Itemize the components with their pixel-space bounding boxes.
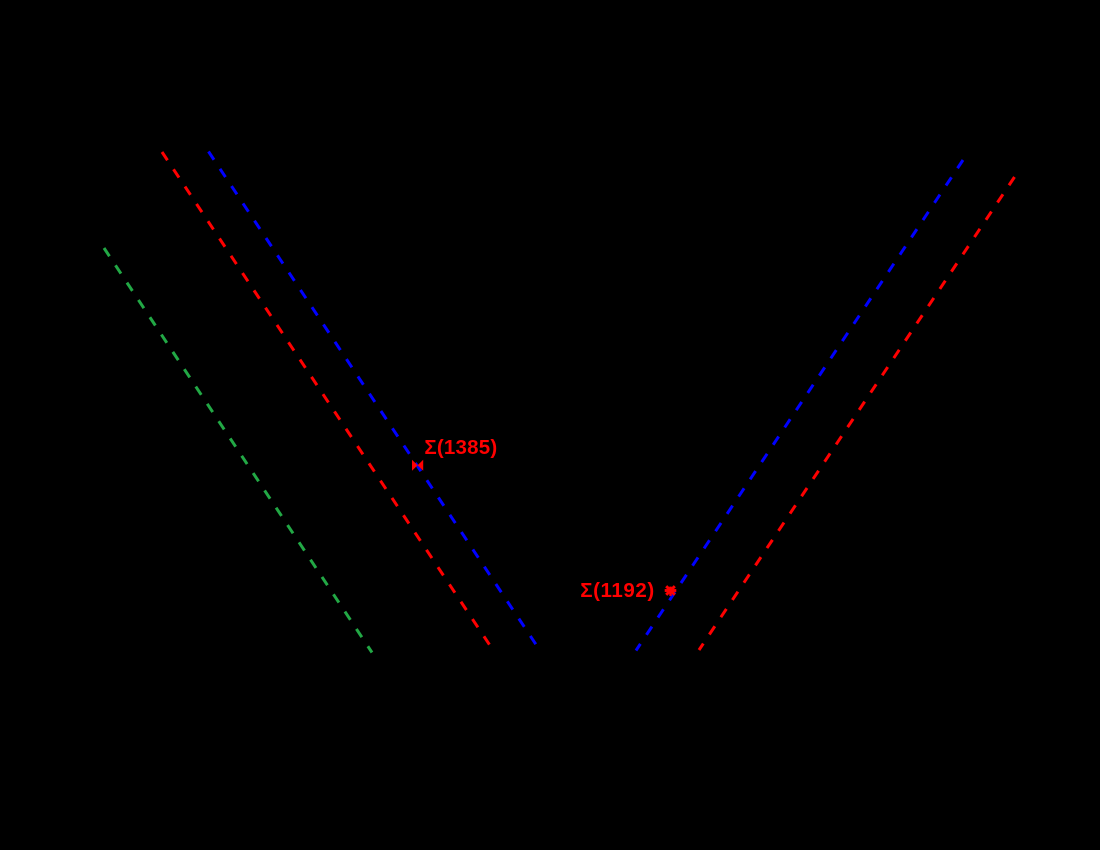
svg-text:Σ(1192): Σ(1192) [580,579,655,602]
red dashed trajectory (right) [699,177,1015,650]
marker Sigma(1192) asterisk [665,586,677,596]
green dashed trajectory (left outer) [104,248,372,653]
svg-text:Σ(1385): Σ(1385) [424,436,497,459]
marker Sigma(1385) bowtie [412,460,423,471]
blue dashed trajectory (right) [636,160,963,651]
red dashed trajectory (left) [162,152,493,650]
blue dashed trajectory (left) [209,152,541,651]
